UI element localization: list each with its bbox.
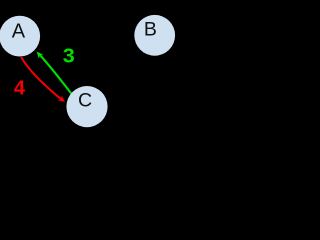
node A circle xyxy=(0,16,40,57)
svg-text:3: 3 xyxy=(63,46,75,68)
svg-text:B: B xyxy=(144,19,157,41)
node B circle xyxy=(134,15,175,56)
arrowhead green at A xyxy=(34,50,43,59)
svg-text:4: 4 xyxy=(14,78,26,100)
edge green C->A xyxy=(38,53,71,94)
svg-text:A: A xyxy=(12,21,26,43)
arrowhead red at C xyxy=(58,96,67,105)
svg-text:C: C xyxy=(78,90,92,112)
edge red A->C xyxy=(21,57,63,101)
node C circle xyxy=(66,86,107,127)
